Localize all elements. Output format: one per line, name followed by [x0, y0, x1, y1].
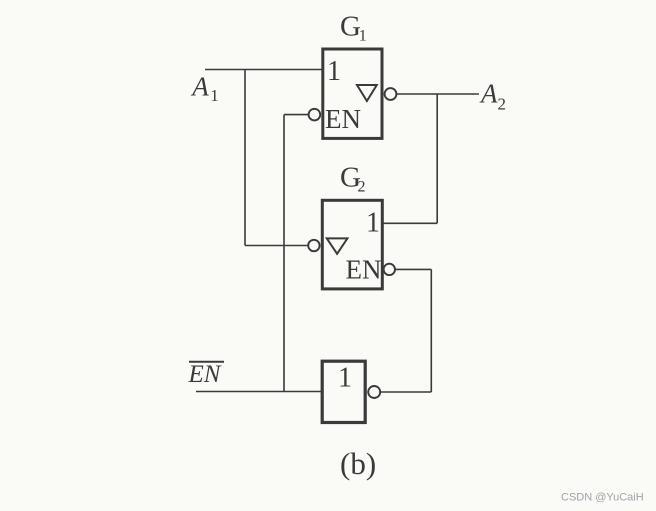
svg-text:(b): (b)	[340, 446, 376, 481]
gate G1 tri-state triangle	[357, 85, 377, 101]
wire inverter output horizontal	[380, 391, 431, 393]
gate G2 box	[322, 200, 382, 289]
svg-text:1: 1	[338, 363, 352, 394]
wire vertical G2-EN down to inverter output	[430, 269, 432, 392]
wire vertical A1 branch down to G2 input	[244, 70, 246, 246]
svg-text:A: A	[479, 79, 498, 109]
svg-text:EN: EN	[325, 104, 361, 134]
gate G1 output bubble	[385, 88, 397, 100]
wire vertical G1-EN down to EN bus	[283, 115, 285, 392]
svg-text:EN: EN	[188, 361, 222, 388]
svg-text:1: 1	[210, 86, 219, 105]
wire A2 output horizontal	[396, 93, 479, 95]
wire G2 output horizontal	[383, 222, 438, 224]
gate G2 input bubble	[308, 240, 319, 251]
svg-text:A: A	[190, 72, 209, 102]
wire vertical A2 branch down to G2 output	[436, 94, 438, 223]
svg-text:1: 1	[359, 28, 367, 45]
svg-text:2: 2	[498, 95, 507, 114]
inverter G3 output bubble	[368, 386, 380, 398]
gate G1 box	[323, 49, 382, 138]
wire G2 EN horizontal	[395, 268, 432, 270]
svg-text:2: 2	[358, 179, 366, 196]
svg-text:1: 1	[327, 56, 341, 87]
wire EN-bar input horizontal	[196, 391, 322, 393]
svg-text:EN: EN	[346, 255, 382, 285]
gate G2 tri-state triangle	[327, 238, 348, 253]
gate G2 EN bubble	[384, 264, 395, 275]
wire A1 horizontal input	[205, 69, 323, 71]
svg-text:CSDN @YuCaiH: CSDN @YuCaiH	[561, 492, 644, 504]
gate G1 EN bubble	[309, 109, 321, 121]
svg-text:1: 1	[366, 208, 380, 239]
wire G2 input horizontal	[245, 245, 308, 247]
wire G1 EN horizontal	[284, 114, 309, 116]
inverter G3 box	[322, 361, 365, 422]
